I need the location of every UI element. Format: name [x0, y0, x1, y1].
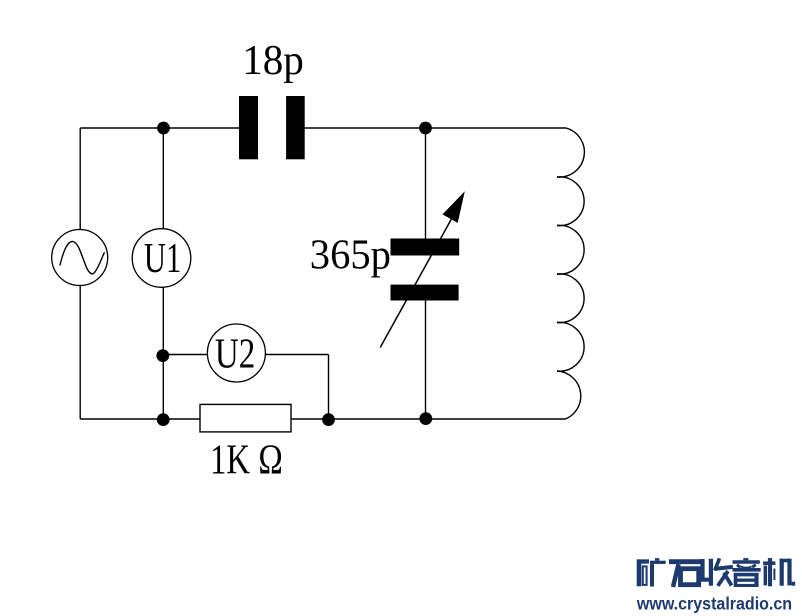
wire U2 drop	[328, 355, 330, 420]
wire mid rail lower	[162, 287, 164, 419]
voltmeter U1 circle	[132, 229, 191, 288]
logo char shou	[703, 558, 733, 585]
AC source circle	[52, 230, 108, 286]
wire U2 right	[265, 354, 328, 356]
inductor L1 coil	[557, 128, 584, 419]
junction node top right	[419, 122, 432, 135]
wire bottom right	[291, 418, 566, 420]
svg-text:18p: 18p	[242, 36, 304, 82]
resistor R1 body	[200, 404, 291, 432]
junction node bottom mid	[157, 413, 170, 426]
wire left rail lower	[79, 286, 81, 420]
svg-text:U1: U1	[144, 234, 181, 281]
wire top-right horizontal	[305, 127, 566, 129]
wire top-left horizontal	[80, 127, 239, 129]
logo char kuang	[637, 558, 666, 586]
wire left rail upper	[79, 128, 81, 230]
capacitor C1 plate right	[286, 96, 305, 159]
logo char ji	[763, 558, 795, 586]
svg-text:1K Ω: 1K Ω	[210, 437, 283, 484]
wire bottom left	[80, 418, 200, 420]
logo char yin	[733, 558, 761, 587]
junction node bottom resistor	[322, 413, 335, 426]
junction node U2 tap	[156, 349, 169, 362]
capacitor C1 plate left	[239, 96, 258, 159]
wire varcap bottom	[425, 301, 427, 420]
variable capacitor C2 arrow shaft	[380, 218, 452, 348]
voltmeter U2 circle	[207, 324, 265, 382]
variable capacitor C2 plate bottom	[391, 285, 459, 301]
wire varcap top	[425, 128, 427, 239]
wire mid rail upper	[162, 128, 164, 229]
AC source sine wave	[60, 241, 105, 273]
junction node bottom varcap	[419, 412, 432, 425]
svg-text:U2: U2	[215, 331, 255, 378]
wire U2 left	[163, 354, 207, 356]
svg-text:www.crystalradio.cn: www.crystalradio.cn	[636, 594, 792, 614]
variable capacitor C2 plate top	[391, 239, 460, 256]
junction node top mid	[157, 122, 170, 135]
variable capacitor C2 arrowhead	[443, 191, 465, 223]
svg-text:365p: 365p	[310, 231, 391, 278]
logo char shi	[669, 562, 703, 587]
